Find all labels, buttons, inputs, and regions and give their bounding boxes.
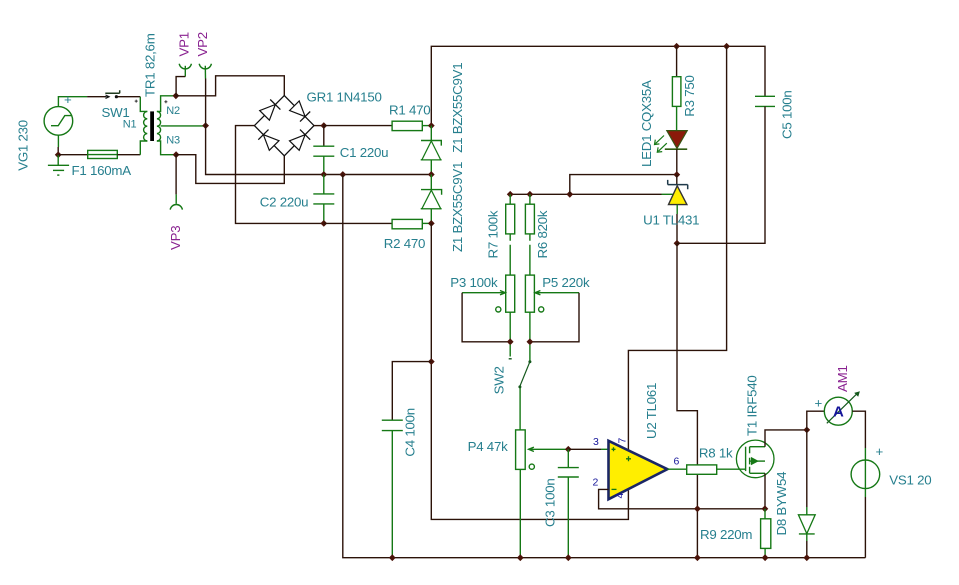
node V+ takeoff [723,43,730,50]
svg-text:Z1 BZX55C9V1: Z1 BZX55C9V1 [450,63,465,153]
ammeter AM1 [807,391,866,448]
wire source down to feedback node [764,473,766,509]
node C4 tap [428,358,435,365]
wire node C to R2 [324,222,392,224]
resistor R8 [687,465,746,474]
svg-text:C1 220u: C1 220u [340,145,389,160]
svg-text:AM1: AM1 [835,365,850,392]
svg-text:GR1 1N4150: GR1 1N4150 [307,90,382,105]
svg-text:R6 820k: R6 820k [535,210,550,258]
potentiometer P5 [525,275,579,342]
probe VP2 [199,64,211,126]
node TL431 cathode [673,171,680,178]
node rail R9 [762,554,769,561]
node P5 bottom [527,338,534,345]
svg-text:R1 470: R1 470 [389,102,430,117]
wire node to fuse [58,154,87,156]
secondary center tap [161,125,206,127]
wire to op-amp pin 3 [568,448,601,450]
core [150,111,154,141]
node N2 top [173,92,180,99]
node P3 bottom [507,338,514,345]
svg-text:P5 220k: P5 220k [542,275,590,290]
node feedback/anode [694,505,701,512]
wire VG1 top to SW1 [87,96,106,98]
voltage source VS1 [851,448,880,558]
wire N2 node to bridge top [176,76,284,96]
svg-text:6: 6 [674,456,680,468]
phase mark N2 [164,100,167,103]
capacitor C1 [313,126,334,175]
wire ref jog to TL431 cathode [570,175,677,195]
zener Z1 (upper) [421,126,442,175]
resistor R7 [506,194,515,275]
node B2 (left drop line tap) [339,171,346,178]
capacitor C2 [313,175,334,224]
svg-text:C4 100n: C4 100n [403,408,418,457]
svg-text:F1 160mA: F1 160mA [72,163,132,178]
voltage source VG1 [44,92,87,147]
top supply rail [431,46,765,125]
svg-text:2: 2 [593,477,599,489]
svg-text:P4 47k: P4 47k [468,439,508,454]
node TL431 anode [674,240,681,247]
svg-text:7: 7 [617,438,629,444]
svg-text:R7 100k: R7 100k [486,210,501,258]
LED LED1 [655,131,688,175]
node zener mid [428,171,435,178]
op-amp U2 TL061 [609,441,668,499]
capacitor C5 [677,96,775,243]
reference divider line (R7/R6 tops to TL431 ref) [510,193,661,195]
capacitor C4 [382,420,403,558]
node center tap [202,122,209,129]
probe VP1 [176,64,191,96]
svg-text:N3: N3 [166,135,180,147]
svg-text:+: + [815,396,823,411]
fuse F1 160mA [88,150,118,158]
svg-text:R3 750: R3 750 [682,75,697,116]
svg-text:D8 BYW54: D8 BYW54 [774,472,789,536]
wire fuse to transformer primary [117,154,140,156]
node B (C1-C2 mid) [320,171,327,178]
node rail P4 [517,554,524,561]
wire N3 node to bridge bottom [176,155,284,184]
switch SW1 [105,90,141,98]
node top rail R3 [673,43,680,50]
transformer TR1 [135,96,206,155]
node feedback rail [694,554,701,561]
secondary lead bottom [157,141,176,155]
svg-text:4: 4 [614,493,626,499]
svg-text:VP2: VP2 [195,32,210,56]
node VG1/fuse/ground [55,151,62,158]
zener Z1 (lower) [421,175,442,224]
wire negative supply: zener bottom down, right, up to op-amp pin 4 [431,223,628,519]
node R6 top [527,191,534,198]
svg-text:U2 TL061: U2 TL061 [644,383,659,439]
resistor R6 [525,194,534,275]
wire P3 wiper loop [462,293,510,342]
diode D8 [798,430,815,558]
bridge diode BL [258,130,268,140]
node rail D8 [803,554,810,561]
probe VP3 [170,155,182,210]
svg-text:A: A [833,404,844,421]
svg-text:VG1 230: VG1 230 [16,120,31,171]
MOSFET T1 IRF540 [736,440,774,478]
capacitor C3 [558,449,579,557]
svg-text:+: + [64,92,72,107]
bridge diode TL [270,100,280,110]
svg-text:C3 100n: C3 100n [543,478,558,527]
switch SW2 [509,345,532,430]
node rail C3 [565,554,572,561]
node source/R9 [762,505,769,512]
svg-text:+: + [876,444,884,459]
svg-text:VP3: VP3 [168,226,183,250]
node rail C4 [389,554,396,561]
svg-text:SW2: SW2 [492,366,507,394]
node zener bottom [428,220,435,227]
node N3 bottom [173,151,180,158]
wire VG1 bottom to fuse node [57,147,59,155]
wire center tap down to common line [206,126,432,175]
svg-text:U1 TL431: U1 TL431 [643,213,699,228]
wire bridge left corner to C2 bottom line [236,126,324,224]
wire C4 tap [392,362,431,421]
svg-text:T1 IRF540: T1 IRF540 [744,375,759,436]
wire TL431 anode down to feedback node [677,243,697,557]
bridge diode TR [300,112,310,122]
wire V+ to op-amp pin 7 [628,46,726,450]
wire bridge right corner to node A [314,125,324,127]
resistor R1 [324,121,432,130]
svg-text:3: 3 [593,436,599,448]
wire op-amp output pin 6 [667,468,686,470]
svg-text:TR1 82,6m: TR1 82,6m [143,33,158,97]
wire drain up to ammeter node [765,430,807,447]
node A (C1 top / R1) [320,122,327,129]
shunt regulator U1 TL431 [668,175,688,244]
secondary winding N2/N3 [157,111,161,141]
svg-text:C2 220u: C2 220u [260,194,309,209]
resistor R2 [392,219,431,228]
primary lead bottom [140,141,147,155]
svg-text:R9 220m: R9 220m [700,527,752,542]
svg-text:C5 100n: C5 100n [779,90,794,139]
svg-text:R2 470: R2 470 [384,236,425,251]
svg-text:Z1 BZX55C9V1: Z1 BZX55C9V1 [450,162,465,252]
svg-text:VP1: VP1 [177,32,192,56]
bridge diode BR [300,130,310,140]
wire pin2 feedback loop [599,489,765,508]
phase mark N1 [135,100,138,103]
svg-text:N1: N1 [123,118,137,130]
potentiometer P4 [516,430,569,558]
resistor R3 [672,46,681,131]
svg-text:LED1 CQX35A: LED1 CQX35A [639,80,654,167]
svg-text:VS1 20: VS1 20 [889,473,931,488]
wire P5 wiper loop [530,293,579,342]
secondary lead top [157,96,176,112]
node ref jog [566,191,573,198]
node zener top [428,122,435,129]
ground [48,155,69,175]
bridge rectifier GR1 edges [254,96,314,156]
potentiometer P3 [462,275,515,342]
node ammeter/D8 [803,427,810,434]
resistor R9 [761,509,771,558]
primary winding N1 [144,111,148,141]
svg-text:P3 100k: P3 100k [450,275,498,290]
node R7 top [507,191,514,198]
node pin3/C3 [565,446,572,453]
primary lead top [140,97,147,112]
node C (C2 bottom) [320,220,327,227]
svg-text:R8 1k: R8 1k [699,446,733,461]
wire left drop to bottom rail [343,175,866,558]
svg-text:N2: N2 [166,105,180,117]
